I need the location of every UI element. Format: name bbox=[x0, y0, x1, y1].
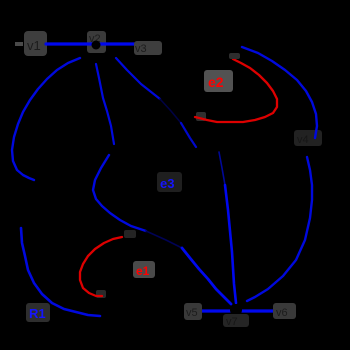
edge e2 (circled): vertical line down to node E bbox=[219, 152, 225, 185]
svg-text:e2: e2 bbox=[208, 74, 224, 90]
wire bright diagonal into node E bbox=[182, 248, 231, 304]
svg-text:e1: e1 bbox=[136, 264, 150, 278]
svg-text:v4: v4 bbox=[297, 134, 309, 146]
arrow stub left of node A bbox=[15, 42, 23, 46]
arrowhead fuzz at red e1 curve end bbox=[96, 290, 106, 298]
edge: big right arc lower part to node E bbox=[247, 157, 312, 301]
node F label box bbox=[184, 303, 202, 320]
label e1 box bbox=[133, 261, 155, 278]
svg-text:e3: e3 bbox=[160, 176, 174, 191]
wire lower part of diagonal from B bbox=[181, 123, 196, 147]
node B black dot bbox=[92, 41, 101, 50]
node D label box bbox=[294, 130, 322, 146]
node A label box bbox=[24, 31, 47, 56]
gray fuzz at red loop start bbox=[229, 53, 240, 59]
label R1 box bbox=[26, 303, 50, 322]
svg-text:v7: v7 bbox=[226, 316, 238, 328]
edge: S-curve from V2 to node E bbox=[93, 155, 146, 231]
wire: top line A-B-C bbox=[46, 42, 136, 45]
wire: bottom line F-E-G bbox=[202, 309, 274, 312]
edge: diagonal from B to hidden node bbox=[116, 58, 160, 99]
node B label box bbox=[87, 31, 106, 53]
label e3 box bbox=[157, 172, 182, 192]
edge: big left arc from B bbox=[12, 58, 80, 180]
edge: lower left elbow arc to bottom bbox=[21, 228, 100, 316]
node G label box bbox=[273, 303, 296, 319]
wire faint middle of diagonal bbox=[160, 99, 181, 123]
red loop e2 annotation curve bbox=[195, 59, 277, 122]
node E label box bbox=[223, 314, 249, 327]
wire faint middle of S-curve bbox=[146, 231, 182, 248]
edge: big right arc upper part bbox=[242, 47, 317, 138]
svg-text:v1: v1 bbox=[27, 38, 41, 53]
node E black dot bbox=[230, 304, 242, 316]
svg-text:v3: v3 bbox=[135, 43, 147, 55]
edge e3: from B down to hidden node V2 bbox=[96, 64, 114, 144]
svg-text:v5: v5 bbox=[186, 307, 198, 319]
label e2 box bbox=[204, 70, 233, 92]
svg-text:v6: v6 bbox=[276, 307, 288, 319]
arrowhead fuzz at red e1 curve start bbox=[124, 230, 136, 238]
red loop e1 annotation curve bbox=[80, 237, 122, 296]
arrowhead fuzz at red e2 curve end bbox=[196, 112, 206, 121]
svg-text:R1: R1 bbox=[29, 306, 46, 321]
node C label box bbox=[134, 41, 162, 55]
